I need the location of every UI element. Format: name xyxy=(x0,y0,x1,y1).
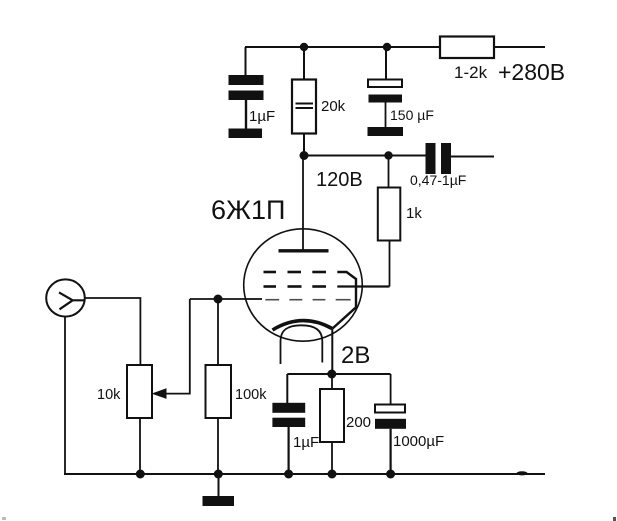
capacitor C4 1uF plates xyxy=(272,403,305,427)
wire C1 top lead xyxy=(245,47,247,75)
node junction bottom 100k xyxy=(214,470,223,479)
node junction 120V at 1k xyxy=(384,151,392,159)
capacitor C3 0,47-1uF plates xyxy=(426,143,452,174)
ground bar under C1 xyxy=(229,129,263,139)
node junction grid xyxy=(214,295,223,304)
wire g3 to cathode xyxy=(333,272,357,329)
ground bar under C2 xyxy=(368,127,404,136)
svg-text:200: 200 xyxy=(346,414,371,431)
svg-text:1-2k: 1-2k xyxy=(454,63,488,82)
capacitor C2 150uF plates (polarized) xyxy=(368,80,402,103)
tube V1 cathode arc xyxy=(273,321,333,330)
resistor R4 200 leads xyxy=(331,374,333,474)
tube V1 envelope xyxy=(244,229,363,341)
wire bottom ground rail xyxy=(64,473,545,475)
node junction bottom C4 xyxy=(284,470,293,479)
wire from R6 to +280V xyxy=(494,46,545,48)
svg-text:6Ж1П: 6Ж1П xyxy=(211,195,285,225)
potentiometer wiper arrow xyxy=(152,299,190,399)
wire anode lead xyxy=(302,156,304,251)
wire input to pot xyxy=(85,298,141,365)
wire top supply rail xyxy=(245,46,440,48)
tube V1 suppressor grid g3 dashes xyxy=(264,271,327,274)
wire 120V node rail xyxy=(304,155,426,157)
wire C5 bottom lead xyxy=(390,429,392,474)
svg-text:1000µF: 1000µF xyxy=(393,433,444,450)
wire C2 bottom lead xyxy=(385,103,387,128)
svg-text:20k: 20k xyxy=(321,98,346,115)
svg-text:+280В: +280В xyxy=(498,59,565,85)
wire grid line xyxy=(190,298,248,300)
svg-text:2В: 2В xyxy=(341,342,370,369)
resistor R3 1k body xyxy=(378,188,401,241)
resistor R5 100k leads xyxy=(217,299,219,474)
node junction top rail at 150uF xyxy=(383,43,391,51)
speck bottom left corner xyxy=(2,517,6,520)
resistor R4 200 body xyxy=(320,389,344,442)
wire C4 top lead xyxy=(286,374,288,403)
wire cathode lead xyxy=(331,329,333,375)
resistor R2 20k leads xyxy=(303,47,305,156)
svg-text:0,47-1µF: 0,47-1µF xyxy=(410,172,466,188)
node junction top rail at 20k xyxy=(300,43,308,51)
resistor R2 20k body xyxy=(292,80,316,134)
svg-text:100k: 100k xyxy=(235,387,267,403)
node junction bottom pot xyxy=(136,470,145,479)
resistor R6 1-2k body xyxy=(440,37,494,59)
wire C5 top lead xyxy=(390,374,392,405)
tube V1 control grid g1 dashes xyxy=(265,299,350,301)
resistor R3 1k leads xyxy=(389,156,390,287)
tube V1 screen grid g2 dashes xyxy=(264,285,327,288)
wire g1 lead left xyxy=(248,298,263,300)
capacitor C5 1000uF plates (polarized) xyxy=(375,405,406,429)
svg-text:120В: 120В xyxy=(316,169,363,191)
tube V1 anode xyxy=(279,249,329,252)
node junction cathode xyxy=(327,370,336,379)
wire input bottom lead xyxy=(64,317,66,474)
speck bottom right corner xyxy=(613,517,616,521)
resistor R5 100k body xyxy=(206,365,232,418)
ground symbol bottom xyxy=(203,474,235,506)
wire g2 to 1k resistor xyxy=(337,285,389,287)
capacitor C1 1uF plates xyxy=(229,75,264,100)
input source G1 circle xyxy=(46,279,85,316)
wire C1 bottom lead xyxy=(245,100,247,129)
svg-text:1k: 1k xyxy=(406,205,422,222)
wire artifact on bottom rail xyxy=(517,471,528,475)
svg-text:1µF: 1µF xyxy=(293,434,319,451)
tube V1 heater xyxy=(281,325,323,364)
svg-text:10k: 10k xyxy=(97,387,121,403)
node junction bottom R4 xyxy=(328,470,337,479)
wire C3 output lead xyxy=(451,156,494,158)
wire cathode node rail xyxy=(287,373,390,375)
potentiometer R1 10k body xyxy=(127,365,152,418)
input source chevron xyxy=(59,292,84,309)
wire C4 bottom lead xyxy=(288,427,290,474)
wire pot bottom lead xyxy=(139,418,141,474)
node junction 120V at 20k xyxy=(300,151,309,160)
svg-text:150 µF: 150 µF xyxy=(390,107,434,123)
wire C2 top lead xyxy=(385,47,387,79)
svg-text:1µF: 1µF xyxy=(249,108,275,125)
node junction bottom C5 xyxy=(386,470,395,479)
